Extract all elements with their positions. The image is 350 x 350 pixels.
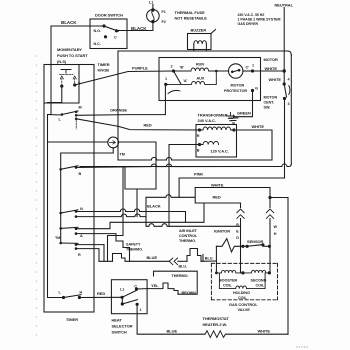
motor aux winding xyxy=(166,71,217,84)
svg-text:F1: F1 xyxy=(162,10,166,14)
svg-text:COIL: COIL xyxy=(223,284,233,288)
T knob symbol xyxy=(61,70,71,74)
svg-text:SELECTOR: SELECTOR xyxy=(112,324,133,329)
blue inline connector xyxy=(169,258,177,265)
svg-text:W: W xyxy=(274,225,278,229)
timer terminal N contacts xyxy=(75,210,78,213)
svg-text:CONTROL: CONTROL xyxy=(179,234,198,238)
svg-text:HOLDING: HOLDING xyxy=(233,291,250,295)
wire yel C to thermo xyxy=(137,283,175,291)
timer terminal M contacts xyxy=(75,111,78,114)
wire N upper xyxy=(76,209,186,222)
holding coil xyxy=(219,273,265,289)
svg-text:230 V.A.C. 50 HZ: 230 V.A.C. 50 HZ xyxy=(238,13,266,17)
transformer primary right terminal xyxy=(232,128,235,131)
svg-text:AIR INLET: AIR INLET xyxy=(179,229,198,233)
svg-text:THERMO.: THERMO. xyxy=(179,239,196,243)
wire white long L3 xyxy=(195,188,270,198)
motor protector U1 xyxy=(229,64,243,78)
push start contact S xyxy=(73,83,76,86)
wire orange M to motor1 xyxy=(76,84,165,115)
svg-text:MOTOR: MOTOR xyxy=(264,96,278,100)
svg-text:THERMO.: THERMO. xyxy=(172,274,189,278)
svg-text:SECOND: SECOND xyxy=(251,279,267,283)
wire red H to heat selector xyxy=(79,296,122,298)
wire R lower xyxy=(76,249,99,262)
timer switch B pivot xyxy=(59,168,62,171)
svg-text:PINK: PINK xyxy=(194,172,203,177)
vertical x137 xyxy=(136,189,138,217)
svg-text:WHITE: WHITE xyxy=(211,183,224,188)
svg-text:WHITE: WHITE xyxy=(252,124,265,129)
timer terminal A contacts xyxy=(75,227,78,230)
svg-text:ORANGE: ORANGE xyxy=(110,108,127,113)
svg-text:GREEN: GREEN xyxy=(237,111,251,116)
svg-text:BROWN: BROWN xyxy=(182,291,197,295)
timer terminal H xyxy=(78,296,81,299)
svg-text:R: R xyxy=(236,223,239,227)
door switch contact N.O. xyxy=(102,24,105,27)
timer L-H switch xyxy=(64,295,82,298)
svg-text:PUSH TO START: PUSH TO START xyxy=(57,53,88,58)
svg-text:AUX: AUX xyxy=(197,77,205,81)
operating thermostat box xyxy=(174,291,178,295)
wire G green to ground xyxy=(234,91,253,117)
blu tick xyxy=(202,255,204,262)
thermostat heater resistor xyxy=(205,331,226,338)
timer switch A xyxy=(61,227,78,228)
motor centrifugal switch xyxy=(283,71,285,84)
wire L2 white mid xyxy=(118,157,272,160)
svg-text:M: M xyxy=(79,106,82,110)
svg-text:1: 1 xyxy=(140,308,142,312)
air inlet control thermostat xyxy=(187,249,216,262)
centrifugal switch terminal 3 xyxy=(283,97,286,100)
centrifugal switch terminal 4 xyxy=(283,82,286,85)
push start left contact feed xyxy=(48,86,62,102)
svg-text:RUN: RUN xyxy=(196,63,204,67)
wire A lower staircase xyxy=(76,234,130,262)
timer switch A pivot TM xyxy=(59,227,62,230)
heat selector terminal C xyxy=(135,287,138,290)
motor protector contacts xyxy=(231,71,234,74)
buzzer BZ xyxy=(188,34,212,50)
door switch DS1 xyxy=(90,19,127,49)
ground symbol motor xyxy=(229,115,238,123)
svg-text:RED: RED xyxy=(213,194,221,199)
svg-text:YEL: YEL xyxy=(151,283,159,288)
L-M switch xyxy=(48,114,62,117)
svg-text:THERMOSTAT: THERMOSTAT xyxy=(203,316,230,321)
wire N lower xyxy=(76,214,146,217)
wire black feed from door switch left xyxy=(51,26,104,115)
wire pink from neutral xyxy=(179,178,284,197)
timer switch R pivot xyxy=(59,242,62,245)
transformer terminal R xyxy=(198,128,201,131)
svg-text:TRANSFORMER: TRANSFORMER xyxy=(198,113,228,118)
svg-text:120 V.A.C.: 120 V.A.C. xyxy=(211,149,229,154)
NEUTRAL line xyxy=(283,8,285,72)
svg-text:L1: L1 xyxy=(120,288,124,292)
svg-text:SAFETY: SAFETY xyxy=(126,243,141,247)
svg-text:DOOR SWITCH: DOOR SWITCH xyxy=(95,13,123,18)
wire red M low diagonal xyxy=(76,119,118,127)
svg-text:BLU.: BLU. xyxy=(179,265,188,269)
motor box xyxy=(159,58,261,101)
motor terminal C' 1 xyxy=(251,69,254,72)
svg-text:RED: RED xyxy=(144,123,152,128)
svg-text:VALVE: VALVE xyxy=(238,307,251,312)
wire R upper xyxy=(76,245,104,262)
svg-text:H: H xyxy=(80,291,83,295)
svg-text:TIMER: TIMER xyxy=(66,317,78,322)
heat selector lower contact xyxy=(121,302,124,305)
svg-text:TM: TM xyxy=(55,236,60,240)
svg-text:CENT.: CENT. xyxy=(264,101,275,105)
heat selector terminal L1 xyxy=(121,296,124,299)
svg-text:RED: RED xyxy=(97,291,105,296)
timer box xyxy=(44,65,94,313)
wire white bottom xyxy=(226,333,288,335)
svg-text:IGNITOR: IGNITOR xyxy=(214,229,230,234)
wire 120vac B left xyxy=(169,145,200,227)
vertical from top wire to mid xyxy=(117,51,119,160)
wire red TM to transformer xyxy=(118,126,200,130)
coil bus: booster + second xyxy=(216,270,269,273)
wire inner timer feed xyxy=(48,115,64,298)
white connector chevrons xyxy=(269,198,271,208)
svg-text:G: G xyxy=(255,87,258,91)
svg-text:H: H xyxy=(274,232,277,236)
heat selector terminal 1 xyxy=(136,303,139,306)
node ignitor-sensor junction xyxy=(241,245,244,248)
buzzer legs xyxy=(193,44,195,51)
heat selector switch box xyxy=(111,280,147,314)
wire 1 down to blue xyxy=(137,304,205,334)
svg-text:'B': 'B' xyxy=(180,66,184,70)
svg-text:BLUE: BLUE xyxy=(147,255,158,260)
fuse stub L1 xyxy=(152,5,154,10)
fuse terminal F1 xyxy=(151,8,154,11)
svg-text:1: 1 xyxy=(252,64,254,68)
svg-text:(N-S): (N-S) xyxy=(57,59,67,64)
svg-text:TM: TM xyxy=(120,153,125,157)
svg-text:COIL: COIL xyxy=(238,296,248,300)
motor terminal 1 xyxy=(164,83,167,86)
svg-text:F2: F2 xyxy=(162,20,166,24)
svg-text:1 PHASE 2 WIRE SYSTEM: 1 PHASE 2 WIRE SYSTEM xyxy=(238,18,281,22)
svg-text:MOTOR: MOTOR xyxy=(231,84,245,88)
timer switch N xyxy=(61,210,78,213)
svg-text:N.O.: N.O. xyxy=(94,29,102,33)
svg-text:BLACK: BLACK xyxy=(61,20,77,25)
svg-text:TIMER: TIMER xyxy=(98,62,110,67)
timer switch N pivot xyxy=(59,212,62,215)
transformer terminal B xyxy=(198,143,201,146)
svg-text:MOTOR: MOTOR xyxy=(264,57,279,62)
svg-text:C: C xyxy=(134,285,137,289)
svg-text:WHITE: WHITE xyxy=(265,66,278,71)
svg-text:1: 1 xyxy=(165,77,167,81)
svg-text:N.C.: N.C. xyxy=(94,42,101,46)
node run-aux junction xyxy=(215,70,218,73)
motor terminal 2 xyxy=(172,69,175,72)
wire TM bottom to bus xyxy=(61,148,113,243)
svg-text:SWITCH: SWITCH xyxy=(112,330,127,335)
svg-text:SW.: SW. xyxy=(264,106,271,110)
svg-text:BLU.: BLU. xyxy=(205,257,214,261)
timer switch R xyxy=(61,242,78,244)
svg-text:NEUTRAL: NEUTRAL xyxy=(275,3,294,8)
node sensor-white junction xyxy=(268,245,271,248)
sensor xyxy=(243,245,247,247)
wire L1 B-line xyxy=(76,164,282,168)
timer motor TM xyxy=(108,137,119,148)
thermal fuse F1 xyxy=(147,10,160,23)
vertical x123 xyxy=(108,167,124,262)
svg-text:3: 3 xyxy=(288,102,290,106)
svg-text:240 V.A.C.: 240 V.A.C. xyxy=(198,118,216,123)
wire TM left xyxy=(48,141,108,143)
svg-text:BLUE: BLUE xyxy=(167,329,178,334)
svg-text:THERMAL FUSE: THERMAL FUSE xyxy=(175,10,206,15)
svg-text:2: 2 xyxy=(171,65,173,69)
svg-text:THERMO.: THERMO. xyxy=(126,248,143,252)
ignitor resistor xyxy=(216,239,243,252)
timer terminal L (L-H switch) xyxy=(62,296,65,299)
valve left leg xyxy=(215,246,217,273)
svg-text:A: A xyxy=(80,234,83,238)
svg-text:BLACK: BLACK xyxy=(147,204,161,209)
svg-text:R: R xyxy=(197,134,200,138)
wire white branch to right drop xyxy=(270,198,288,335)
ground symbol transformer xyxy=(227,113,235,121)
svg-text:'A': 'A' xyxy=(183,79,187,83)
push to start sub-box xyxy=(44,65,79,104)
node booster-second coil junction xyxy=(241,271,244,274)
wire L5 to red xyxy=(146,188,241,204)
transformer T1 xyxy=(196,125,237,158)
motor rotation arc xyxy=(168,90,180,93)
white U segment xyxy=(125,167,156,189)
safety thermostat xyxy=(99,254,169,262)
wire top main xyxy=(118,50,288,52)
svg-text:SENSOR: SENSOR xyxy=(247,239,264,244)
svg-text:HEATER-2 W.: HEATER-2 W. xyxy=(203,322,228,327)
svg-text:C: C xyxy=(114,36,117,40)
gas valve dashed box xyxy=(211,263,277,299)
motor run winding xyxy=(174,68,229,71)
fuse terminal F2 xyxy=(151,20,154,23)
svg-text:C': C' xyxy=(246,66,250,70)
scan artifact gray dots xyxy=(296,346,307,347)
svg-text:NOT RESETABLE: NOT RESETABLE xyxy=(175,16,208,21)
motor terminal G xyxy=(251,89,254,92)
motor start blade 2-A xyxy=(174,71,182,84)
svg-text:MOMENTARY: MOMENTARY xyxy=(57,47,82,52)
timer terminal B xyxy=(75,166,78,169)
wire right drop from top xyxy=(290,55,292,164)
vertical x154 xyxy=(119,142,156,189)
node coil bus left junction xyxy=(215,272,218,275)
svg-text:PROTECTOR: PROTECTOR xyxy=(224,89,247,93)
svg-text:GAS DRYER: GAS DRYER xyxy=(238,22,259,26)
red connector chevrons xyxy=(240,203,242,208)
svg-text:PURPLE: PURPLE xyxy=(132,66,148,71)
timer switch B xyxy=(61,166,78,170)
scan artifact pink dots xyxy=(36,55,38,336)
node white branch junction xyxy=(268,196,271,199)
push start contact left xyxy=(60,85,63,88)
wire A upper jog xyxy=(76,203,204,229)
timer terminal L (L-M switch) xyxy=(61,113,64,116)
svg-text:COIL: COIL xyxy=(256,284,266,288)
svg-text:WHITE: WHITE xyxy=(269,77,282,82)
wire door C to fuse xyxy=(117,22,153,31)
door switch contact N.C. xyxy=(104,35,107,38)
svg-text:BUZZER: BUZZER xyxy=(191,28,207,33)
svg-text:KNOB: KNOB xyxy=(98,68,110,73)
svg-text:D: D xyxy=(236,236,239,240)
svg-text:WHITE: WHITE xyxy=(258,329,271,334)
svg-text:N: N xyxy=(80,207,83,211)
node white-neutral junction xyxy=(283,69,286,72)
door switch contact C xyxy=(115,29,118,32)
svg-text:B: B xyxy=(79,172,82,176)
wire white protector to neutral xyxy=(253,70,285,72)
sensor contacts xyxy=(246,245,249,248)
svg-text:L1: L1 xyxy=(149,1,153,5)
wire buzzer line jog left over neutral xyxy=(80,164,291,167)
wire purple S to motor 2 xyxy=(75,71,174,85)
node second coil right junction xyxy=(268,271,271,274)
timer terminal R contacts xyxy=(75,243,78,246)
door switch contacts xyxy=(104,26,118,31)
wire black lower continuation xyxy=(146,217,241,227)
wire white transformer out xyxy=(237,130,273,160)
svg-text:BOOSTER: BOOSTER xyxy=(219,279,238,283)
dashed actuator arrows xyxy=(61,79,63,85)
svg-text:HEAT: HEAT xyxy=(112,318,123,323)
svg-text:BLACK: BLACK xyxy=(131,26,147,31)
svg-text:R: R xyxy=(78,253,81,257)
svg-text:B: B xyxy=(197,149,200,153)
vertical L5 left xyxy=(145,197,147,216)
